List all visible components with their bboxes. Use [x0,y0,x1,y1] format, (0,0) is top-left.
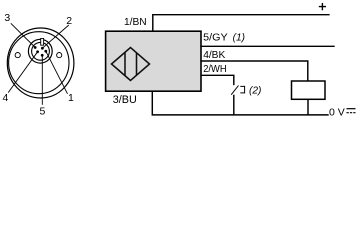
diamond right chord [136,53,138,76]
wire 2/WH lower segment [233,95,235,115]
svg-text:4/BK: 4/BK [203,50,225,61]
mounting hole right [57,53,62,58]
connector second ring [9,32,69,94]
svg-text:4: 4 [3,92,9,104]
leader line pin 2 [42,25,68,48]
leader line pin 4 [8,52,37,93]
switch lever [231,86,238,95]
leader line pin 1 [46,51,68,94]
sensor box [106,31,201,91]
DC symbol dashed line [347,112,356,114]
pin 1 dot [44,50,47,53]
svg-text:1/BN: 1/BN [124,17,147,28]
svg-text:3/BU: 3/BU [113,94,137,106]
switch bracket [240,86,244,93]
wire 4/BK [200,61,307,81]
wire 3/BU to 0V rail [152,92,328,115]
svg-text:(2): (2) [249,86,261,97]
sensor diamond icon [112,48,150,81]
svg-text:5: 5 [40,106,46,118]
load wire lower [307,99,309,115]
mounting hole left [15,53,20,58]
wire 5/GY [200,45,334,47]
svg-text:2: 2 [66,15,72,27]
DC symbol solid line [347,108,356,110]
connector outer circle [7,28,74,98]
wire 2/WH [200,75,233,85]
pin 2 dot [41,47,44,50]
diamond left chord [124,52,126,75]
svg-text:0 V: 0 V [329,106,345,118]
plus sign [319,3,326,10]
pin 3 dot [34,46,37,49]
pin circle outer ring [28,39,52,63]
keyway notch [41,38,44,45]
leader line pin 3 [11,23,35,47]
pin circle inner ring [32,42,50,60]
wire 1/BN to + rail [153,15,330,31]
svg-text:3: 3 [4,12,10,24]
svg-text:(1): (1) [233,33,245,44]
pin 4 dot [36,50,39,53]
load resistor box [292,81,326,99]
pin 5 dot [41,54,44,57]
svg-text:5/GY: 5/GY [203,33,228,44]
leader line pin 5 [41,55,43,105]
svg-text:1: 1 [68,92,74,104]
svg-text:2/WH: 2/WH [203,64,226,75]
